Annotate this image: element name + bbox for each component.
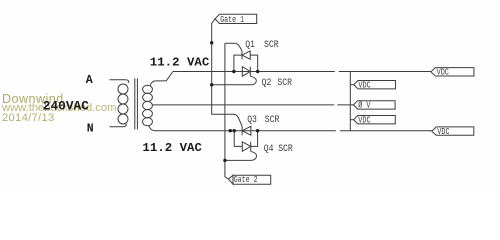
svg-text:SCR: SCR xyxy=(278,142,293,154)
wire stub to VDC flag lower xyxy=(350,119,353,121)
svg-text:N: N xyxy=(87,122,94,135)
flag 0V mid xyxy=(353,101,395,109)
thyristor Q4 xyxy=(250,142,252,152)
thyristor Q2 xyxy=(249,67,251,77)
svg-text:SCR: SCR xyxy=(264,38,279,50)
svg-text:Q2: Q2 xyxy=(262,76,272,88)
wire secondary bottom lead / bottom rail left segment xyxy=(149,125,336,130)
wire Q4 parallel loop xyxy=(234,131,257,147)
wire gate horizontal Q2 to net A xyxy=(212,84,251,86)
junction dot net A upper xyxy=(210,41,213,44)
junction dot net A / Q2 gate xyxy=(210,83,213,86)
flag VDC far right bottom xyxy=(432,127,474,135)
svg-text:Q3: Q3 xyxy=(247,113,257,125)
flag VDC mid upper xyxy=(354,81,396,89)
wire bottom rail right segment to VDC flag xyxy=(340,130,432,132)
wire Gate 1 vertical (net A) with corner to Q3 gate xyxy=(212,19,242,126)
svg-text:11.2 VAC: 11.2 VAC xyxy=(142,141,202,155)
svg-text:11.2 VAC: 11.2 VAC xyxy=(150,56,210,70)
wire Q4 gate hook xyxy=(251,151,257,160)
svg-text:VDC: VDC xyxy=(358,116,370,126)
flag VDC mid lower xyxy=(354,116,396,124)
terminal N lead xyxy=(110,124,127,127)
wire Gate 2 vertical (net B) xyxy=(225,43,229,179)
svg-text:240VAC: 240VAC xyxy=(43,99,89,114)
transformer core xyxy=(135,78,138,129)
svg-text:VDC: VDC xyxy=(437,127,449,137)
wire top rail right segment to +VDC flag xyxy=(339,71,431,73)
wire secondary top lead xyxy=(150,72,173,86)
wire output vertical bus xyxy=(349,72,351,131)
svg-text:Q1: Q1 xyxy=(245,38,255,50)
junction dot bottom rail stray xyxy=(229,129,232,132)
wire top rail left segment xyxy=(173,71,335,73)
watermark www.thebackshed.com xyxy=(2,102,116,114)
svg-text:SCR: SCR xyxy=(265,113,280,125)
wire Q2 gate hook xyxy=(250,76,256,85)
wire center tap rail right segment to 0V flag xyxy=(337,104,353,106)
svg-text:VDC: VDC xyxy=(437,68,449,78)
terminal A lead xyxy=(110,80,129,83)
wire gate horizontal Q4 to net B xyxy=(225,159,251,161)
svg-text:Gate 2: Gate 2 xyxy=(234,175,258,185)
junction dot Q1 loop left xyxy=(232,70,235,73)
svg-text:A: A xyxy=(86,74,93,87)
svg-text:Q4: Q4 xyxy=(264,142,274,154)
junction dot Q4 loop left xyxy=(233,129,236,132)
wire stub to VDC flag upper xyxy=(350,84,354,86)
thyristor Q3 xyxy=(241,126,243,135)
watermark Downwind xyxy=(2,92,64,106)
svg-text:Gate 1: Gate 1 xyxy=(220,15,244,25)
wire gate horizontal to Q1 xyxy=(225,43,242,51)
flag VDC far right top xyxy=(431,68,474,76)
flag Gate 2 xyxy=(228,175,270,184)
svg-text:VDC: VDC xyxy=(358,81,370,91)
flag Gate 1 xyxy=(215,14,257,23)
transformer T1 secondary winding xyxy=(143,85,153,93)
watermark date 2014/7/13 xyxy=(2,112,54,124)
svg-text:Ø V: Ø V xyxy=(358,100,370,111)
junction dot Q1 loop right xyxy=(256,70,259,73)
wire center tap rail left segment xyxy=(152,104,334,106)
thyristor Q1 xyxy=(241,51,243,59)
svg-text:SCR: SCR xyxy=(277,76,292,88)
transformer T1 primary winding xyxy=(118,84,128,94)
junction dot net B / Q4 gate xyxy=(223,159,226,162)
wire Q1 parallel loop xyxy=(234,55,258,71)
junction dot Q4 loop right xyxy=(256,129,259,132)
